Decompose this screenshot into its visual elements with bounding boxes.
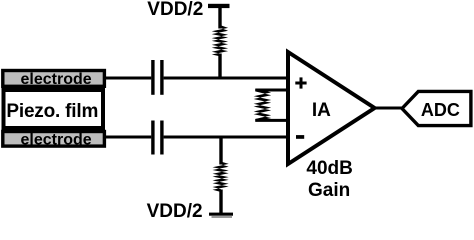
wire resistor R2 to bottom terminal <box>219 190 222 215</box>
supply terminal bottom shade <box>212 216 233 218</box>
ADC block <box>402 91 471 125</box>
electrode bottom <box>3 132 105 147</box>
electrode top <box>3 71 105 87</box>
svg-text:40dB: 40dB <box>306 158 352 179</box>
wire bottom electrode to capacitor C2 <box>103 136 151 139</box>
wire bottom node to resistor R2 <box>219 136 222 165</box>
resistor R3 top stub <box>256 89 291 92</box>
svg-text:electrode: electrode <box>21 71 92 88</box>
resistor R2 <box>213 162 229 192</box>
wire terminal to resistor R1 <box>218 5 221 29</box>
op-amp U1 (IA) <box>288 52 375 164</box>
resistor R1 <box>212 25 228 56</box>
svg-text:Gain: Gain <box>308 180 350 201</box>
capacitor C2 <box>153 121 162 155</box>
piezo film box <box>4 90 104 128</box>
resistor R3 bottom stub <box>256 119 291 122</box>
svg-text:electrode: electrode <box>21 131 92 148</box>
capacitor C1 <box>153 60 162 95</box>
wire op-amp output to ADC <box>374 107 403 110</box>
svg-text:VDD/2: VDD/2 <box>147 0 203 20</box>
wire resistor R1 to top node <box>218 54 221 80</box>
resistor R3 <box>254 89 272 122</box>
svg-text:IA: IA <box>312 100 331 121</box>
svg-text:Piezo. film: Piezo. film <box>6 101 98 122</box>
op-amp + pin label <box>295 77 306 88</box>
supply terminal bottom <box>209 213 233 216</box>
svg-text:ADC: ADC <box>421 100 460 120</box>
supply terminal top <box>208 4 230 8</box>
svg-text:VDD/2: VDD/2 <box>147 201 203 218</box>
wire capacitor C1 to op-amp + input <box>164 77 290 80</box>
op-amp - pin label <box>296 135 304 139</box>
wire top electrode to capacitor C1 <box>103 77 151 80</box>
wire capacitor C2 to op-amp - input <box>164 136 290 139</box>
